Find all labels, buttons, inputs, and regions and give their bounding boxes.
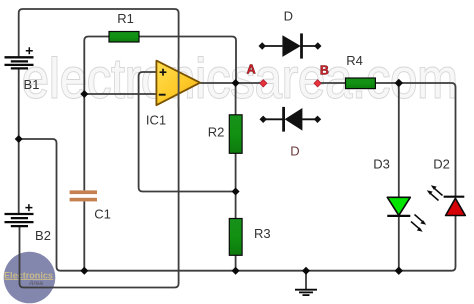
svg-text:Electronics: Electronics bbox=[4, 270, 53, 280]
diode cathode bar bbox=[300, 33, 303, 58]
junction op-amp output / R1 / R2 bbox=[232, 79, 240, 87]
node A marker bbox=[260, 80, 267, 87]
wire inverting input bbox=[84, 93, 156, 95]
terminal anode (node A side) bbox=[259, 42, 266, 49]
svg-text:D3: D3 bbox=[373, 156, 390, 171]
LED triangle body bbox=[446, 198, 466, 215]
junction R4 / D3 / D2 bbox=[395, 79, 403, 87]
LED D3 (green) bbox=[387, 197, 426, 231]
logo Electronics Area bbox=[4, 252, 56, 304]
LED cathode bar bbox=[444, 196, 465, 198]
svg-text:B: B bbox=[320, 64, 329, 78]
wire V+/V- supply crossing over op-amp bbox=[178, 59, 180, 107]
wire non-inverting input to R2/R3 junction bbox=[139, 72, 236, 192]
op-amp U1 (IC1) bbox=[156, 61, 200, 106]
wire D3 column bbox=[398, 83, 400, 271]
diode arrow body bbox=[282, 35, 300, 57]
battery B2 plus sign bbox=[25, 204, 32, 211]
svg-text:A: A bbox=[247, 62, 256, 76]
wire diode leads bbox=[263, 118, 317, 120]
svg-text:C1: C1 bbox=[94, 207, 111, 222]
junction B1-/B2+ midpoint tap bbox=[15, 135, 23, 143]
svg-text:D: D bbox=[290, 143, 299, 158]
op-amp plus input sign bbox=[160, 69, 167, 76]
svg-text:B2: B2 bbox=[35, 228, 51, 243]
wire supply loop: B1+ top rail, right vertical, bottom, up to B2- bbox=[19, 9, 179, 288]
svg-text:Area: Area bbox=[28, 280, 43, 287]
LED D2 (red) bbox=[427, 185, 466, 215]
ground bbox=[295, 290, 317, 295]
junction ground symbol to rail bbox=[302, 267, 310, 275]
wire R4 left to node B bbox=[318, 82, 346, 84]
resistor R3 bbox=[229, 219, 242, 256]
wire B1- to B2+ left column bbox=[18, 69, 20, 214]
svg-text:IC1: IC1 bbox=[146, 113, 166, 128]
svg-text:D: D bbox=[284, 8, 293, 23]
resistor R2 bbox=[229, 115, 242, 154]
resistor R1 bbox=[109, 32, 139, 43]
LED triangle body bbox=[387, 197, 410, 215]
wire R1 feedback loop bbox=[84, 37, 236, 95]
diode D (bottom, cathode left) bbox=[260, 107, 322, 132]
terminal anode (node B side) bbox=[314, 116, 321, 123]
watermark electronicsarea.com bbox=[22, 47, 459, 110]
junction R2/R3 divider to non-inverting input bbox=[232, 188, 240, 196]
junction R3 to ground rail bbox=[232, 267, 240, 275]
diode cathode bar bbox=[282, 107, 285, 132]
wire D2 top to R4 row bbox=[375, 83, 455, 197]
svg-text:D2: D2 bbox=[433, 156, 450, 171]
junction inverting-input node (R1/C1) bbox=[80, 90, 88, 98]
svg-text:R3: R3 bbox=[254, 226, 271, 241]
wire ground stub bbox=[305, 271, 307, 290]
svg-text:R4: R4 bbox=[346, 53, 363, 68]
wire diode leads bbox=[262, 45, 318, 47]
resistor R4 bbox=[346, 78, 376, 89]
terminal cathode (node A side) bbox=[260, 116, 267, 123]
diode D (top, anode left) bbox=[259, 33, 322, 58]
wire R2/R3 column bbox=[235, 83, 237, 271]
op-amp minus input sign bbox=[159, 94, 166, 96]
svg-text:R1: R1 bbox=[117, 11, 134, 26]
junction D3 to ground rail bbox=[395, 267, 403, 275]
terminal cathode (node B side) bbox=[314, 42, 321, 49]
wire C1 column bbox=[83, 94, 85, 271]
wire op-amp output to node A bbox=[200, 82, 263, 84]
battery B1 bbox=[5, 57, 34, 68]
node B marker bbox=[314, 80, 321, 87]
battery B1 plus sign bbox=[26, 47, 33, 54]
light emission arrows bbox=[415, 215, 425, 223]
light emission arrows bbox=[433, 187, 443, 195]
LED cathode bar bbox=[387, 215, 410, 217]
svg-text:R2: R2 bbox=[208, 125, 225, 140]
junction C1 to ground rail bbox=[80, 267, 88, 275]
capacitor C1 bbox=[70, 190, 97, 201]
battery B2 bbox=[5, 214, 34, 226]
svg-text:electronicsarea.com: electronicsarea.com bbox=[22, 47, 458, 109]
svg-text:B1: B1 bbox=[24, 77, 40, 92]
wire mid tap to ground rail (bottom) and up to D2 bbox=[19, 139, 456, 271]
diode arrow body bbox=[285, 108, 303, 131]
